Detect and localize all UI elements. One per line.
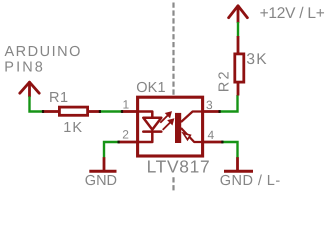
led cathode lead — [139, 132, 152, 142]
svg-text:R2: R2 — [216, 69, 232, 92]
supply arrow +12V — [229, 6, 248, 22]
isolation barrier dashed line (bottom segment) — [172, 177, 174, 190]
led cathode bar — [143, 130, 161, 133]
svg-text:GND / L-: GND / L- — [220, 173, 281, 189]
pin 1 stub — [122, 110, 137, 113]
ground GND / L- — [224, 157, 253, 171]
svg-text:OK1: OK1 — [136, 80, 166, 96]
pin 2 stub — [119, 141, 138, 144]
junction dots (pin/net overlaps) — [42, 110, 224, 143]
pin 3 stub — [203, 110, 220, 113]
led triangle — [143, 118, 161, 130]
resistor R2 — [235, 36, 244, 96]
phototransistor emitter — [181, 128, 203, 142]
svg-text:3: 3 — [206, 98, 213, 112]
led anode lead — [139, 112, 152, 118]
light arrow 1 — [160, 112, 171, 123]
ground GND (left) — [89, 157, 116, 171]
wire pin2 to GND — [104, 142, 119, 158]
svg-text:GND: GND — [85, 173, 117, 189]
svg-text:1: 1 — [123, 98, 130, 112]
wire arrow to R1 — [30, 96, 44, 111]
LED inside OK1 — [139, 112, 161, 143]
resistor R1 — [43, 107, 101, 115]
svg-text:4: 4 — [208, 128, 215, 142]
svg-text:+12V / L+: +12V / L+ — [260, 5, 325, 22]
svg-text:2: 2 — [122, 127, 129, 141]
wire R1 to pin1 — [100, 110, 123, 112]
svg-text:ARDUINO: ARDUINO — [5, 44, 82, 60]
light arrow 2 — [163, 119, 174, 130]
wire pin4 to GND/L- — [222, 142, 238, 158]
supply arrow ARDUINO_PIN8 — [20, 82, 39, 96]
svg-text:R1: R1 — [49, 90, 69, 106]
svg-text:LTV817: LTV817 — [147, 157, 211, 177]
phototransistor base bar — [175, 113, 181, 143]
svg-text:1K: 1K — [63, 120, 83, 136]
svg-text:PIN8: PIN8 — [4, 59, 45, 75]
wire arrow to R2 — [237, 22, 239, 37]
pin 4 stub — [203, 141, 223, 144]
wire pin3 to R2 — [219, 95, 238, 112]
isolation barrier dashed line (top segment) — [172, 3, 174, 96]
optocoupler OK1 box — [138, 97, 203, 156]
svg-text:3K: 3K — [246, 51, 267, 68]
phototransistor collector — [181, 112, 203, 123]
emitter arrowhead (open) — [183, 133, 190, 140]
